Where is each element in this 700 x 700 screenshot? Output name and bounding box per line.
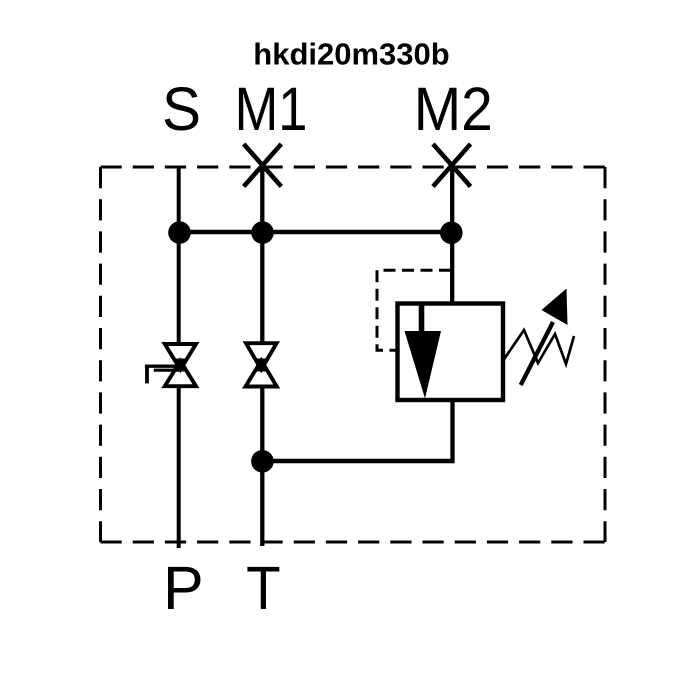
- pilot line (dashed): [377, 270, 451, 350]
- wire M1 line upper segment: [260, 166, 264, 344]
- wire S line upper segment: [177, 167, 181, 345]
- svg-text:S: S: [162, 75, 201, 143]
- dashed enclosure border right edge: [604, 167, 607, 542]
- RV1 poppet stem: [419, 304, 425, 334]
- spring (adjustable): [504, 330, 575, 364]
- wire bottom horizontal connector: [262, 459, 452, 464]
- adjustment arrow head: [542, 289, 568, 326]
- RV1 poppet arrow (solid cone): [405, 331, 442, 399]
- plugged port X on M2: [433, 144, 471, 187]
- relief valve RV1 body: [398, 304, 504, 401]
- junction dot M2/bus: [440, 222, 463, 245]
- junction dot S/bus: [168, 221, 191, 244]
- wire M2 line upper segment: [450, 166, 454, 304]
- plugged port X on M1: [244, 144, 282, 187]
- svg-text:T: T: [246, 554, 281, 622]
- svg-text:hkdi20m330b: hkdi20m330b: [253, 37, 449, 72]
- seat hook stub of V1: [145, 365, 149, 384]
- junction dot T/connector: [251, 450, 274, 473]
- V1 waist blob: [176, 359, 185, 372]
- check valve V1 on S line (hourglass with seat hook): [165, 344, 196, 386]
- seat hook line of V1: [145, 365, 181, 368]
- svg-text:M2: M2: [414, 75, 493, 143]
- dashed enclosure border top edge: [101, 166, 606, 169]
- junction dot M1/bus: [251, 221, 274, 244]
- V2 waist blob: [257, 359, 266, 372]
- svg-text:M1: M1: [235, 75, 308, 143]
- wire horizontal bus: [179, 230, 453, 235]
- wire M2 line below relief valve: [450, 400, 454, 463]
- dashed enclosure border left edge: [99, 167, 102, 542]
- dashed enclosure border bottom edge: [101, 541, 606, 544]
- wire M1/T line lower segment: [260, 387, 264, 547]
- seat hook second line of V1: [154, 369, 179, 372]
- wire S/P line lower segment: [177, 386, 181, 549]
- svg-text:P: P: [163, 554, 204, 622]
- check valve V2 on M1 line (hourglass): [246, 343, 277, 386]
- adjustment arrow shaft: [521, 322, 553, 385]
